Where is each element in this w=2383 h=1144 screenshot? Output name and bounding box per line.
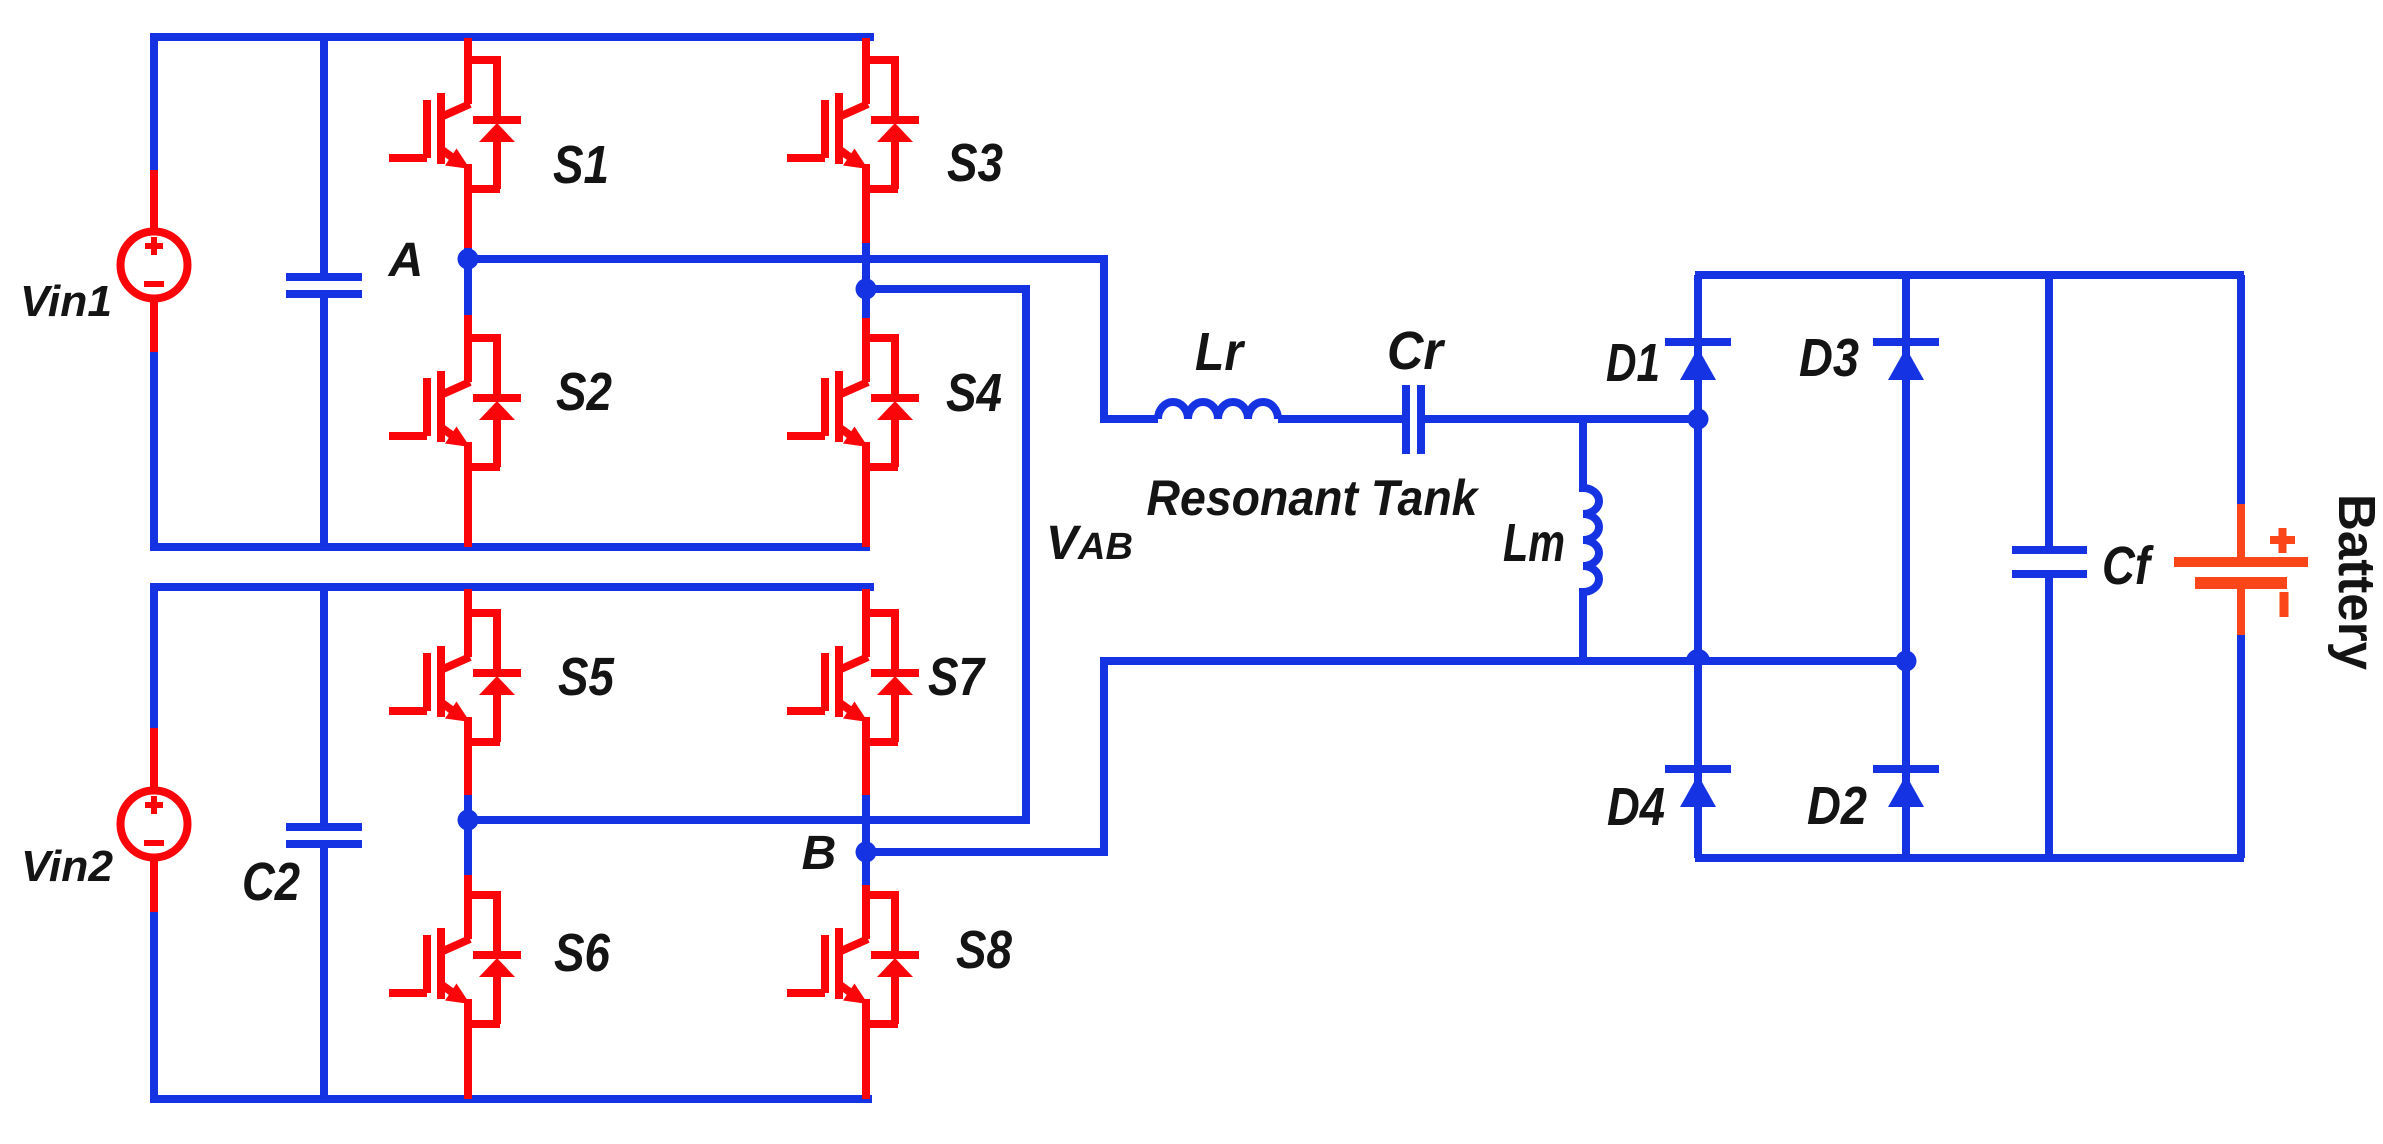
wire node B to rectifier (with hop over left leg) bbox=[866, 653, 1906, 852]
wire node A to resonant tank bbox=[468, 259, 1158, 419]
wire bridge2 top rail bbox=[150, 583, 874, 591]
svg-text:Vin1: Vin1 bbox=[20, 277, 112, 326]
transistor S1 bbox=[389, 38, 521, 251]
svg-text:B: B bbox=[802, 827, 837, 880]
svg-text:S4: S4 bbox=[946, 363, 1002, 423]
inductor Lm bbox=[1583, 419, 1599, 661]
wire Cr to rectifier bbox=[1425, 415, 1700, 423]
svg-text:S6: S6 bbox=[554, 923, 611, 983]
wire rectifier right leg bbox=[1902, 275, 1910, 858]
diode D2 bbox=[1873, 769, 1939, 807]
svg-text:Cf: Cf bbox=[2102, 536, 2154, 596]
transistor S5 bbox=[389, 589, 521, 798]
svg-text:A: A bbox=[388, 234, 424, 287]
svg-text:Resonant Tank: Resonant Tank bbox=[1147, 470, 1480, 526]
wire S3S4 midpoint to S5S6 midpoint bbox=[468, 289, 1026, 820]
svg-text:S5: S5 bbox=[558, 647, 615, 707]
node rectifier right mid bbox=[1896, 651, 1917, 672]
battery branch wires bbox=[2237, 275, 2245, 858]
wire left branch lower (Vin2 leg) bbox=[150, 583, 158, 1099]
svg-text:S3: S3 bbox=[947, 133, 1003, 193]
svg-text:S7: S7 bbox=[928, 647, 987, 707]
svg-text:D4: D4 bbox=[1607, 777, 1665, 837]
node A bbox=[458, 248, 479, 318]
capacitor C2 bbox=[286, 583, 362, 1099]
svg-text:Lr: Lr bbox=[1195, 322, 1246, 382]
svg-text:D3: D3 bbox=[1799, 328, 1859, 388]
svg-text:Vin2: Vin2 bbox=[21, 842, 114, 891]
transistor S7 bbox=[787, 589, 919, 798]
battery bbox=[2174, 504, 2308, 635]
transistor S3 bbox=[787, 38, 919, 245]
voltage source Vin2 bbox=[121, 728, 188, 912]
node B bbox=[856, 795, 877, 888]
inductor Lr bbox=[1158, 402, 1278, 419]
wire left branch upper (Vin1 leg) bbox=[150, 33, 158, 547]
wire bottom rail bbox=[150, 1095, 872, 1103]
node rectifier left mid bbox=[1688, 409, 1709, 430]
wire top rail bbox=[150, 33, 874, 41]
diode D3 bbox=[1873, 342, 1939, 380]
voltage source Vin1 bbox=[121, 170, 188, 352]
wire rectifier left leg bbox=[1694, 275, 1702, 858]
transistor S6 bbox=[389, 875, 521, 1099]
transistor S2 bbox=[389, 315, 521, 547]
wire Lr to Cr bbox=[1278, 415, 1402, 423]
transistor S8 bbox=[787, 885, 919, 1099]
svg-text:D1: D1 bbox=[1606, 333, 1660, 393]
diode D1 bbox=[1665, 342, 1731, 380]
capacitor Cr bbox=[1406, 385, 1421, 454]
capacitor Cf bbox=[2012, 275, 2087, 858]
svg-text:D2: D2 bbox=[1807, 776, 1867, 836]
svg-text:S2: S2 bbox=[556, 362, 612, 422]
svg-text:S1: S1 bbox=[553, 135, 609, 195]
node S5-S6 midpoint bbox=[458, 795, 479, 878]
transistor S4 bbox=[787, 318, 919, 547]
capacitor C1 bbox=[286, 33, 362, 547]
diode D4 bbox=[1665, 769, 1731, 807]
svg-text:S8: S8 bbox=[956, 920, 1012, 980]
wire bridge1 bottom rail bbox=[150, 543, 870, 551]
node S3-S4 midpoint bbox=[856, 243, 877, 322]
svg-text:Lm: Lm bbox=[1503, 513, 1565, 573]
wire rectifier top rail bbox=[1695, 271, 2244, 279]
svg-text:Battery: Battery bbox=[2327, 494, 2383, 670]
svg-text:Cr: Cr bbox=[1387, 321, 1446, 381]
svg-text:C2: C2 bbox=[242, 852, 300, 912]
wire rectifier bottom rail bbox=[1695, 854, 2244, 862]
